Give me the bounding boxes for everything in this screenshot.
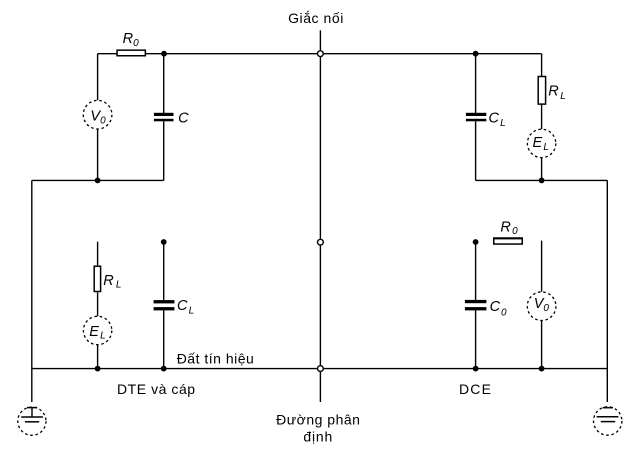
ground symbol left (protective earth in dashed circle) (18, 407, 46, 435)
node junction dot bottom V0 branch (539, 366, 545, 372)
wire demarcation vertical middle1 (319, 57, 321, 239)
resistor RL (bottom left, vertical) (94, 266, 100, 291)
wire EL branch lower (541, 158, 543, 181)
svg-text:Đường phân: Đường phân (276, 411, 360, 427)
source EL (bottom left, dashed circle) (83, 316, 111, 344)
resistor R0 (bottom right, floating) (494, 238, 523, 244)
source EL (top right, dashed circle) (527, 129, 555, 157)
wire V0 branch lower (bottom right) (541, 321, 543, 369)
wire C branch lower (163, 121, 165, 180)
wire RL to EL (541, 104, 543, 129)
wire V0 branch lower (97, 129, 99, 180)
node junction dot top-left C branch (161, 51, 167, 57)
capacitor C (top left plates) (154, 113, 174, 122)
capacitor C0 (bottom right plates) (465, 300, 487, 311)
wire demarcation vertical middle2 (319, 245, 321, 365)
wire demarcation vertical lower (319, 372, 321, 402)
wire left mid horizontal (32, 179, 164, 181)
node junction dot top-right CL branch (473, 51, 479, 57)
node terminal dot C0 branch (bottom right) (473, 239, 479, 245)
connector open circle middle (318, 239, 324, 245)
wire CL branch lower (bottom left) (163, 310, 165, 368)
wire V0 branch upper (97, 54, 99, 100)
node junction dot left mid (95, 178, 101, 184)
wire V0 branch upper (bottom right) (541, 241, 543, 292)
wire bottom horizontal left of circle (32, 368, 317, 370)
ground symbol right (protective earth in dashed circle) (594, 407, 622, 435)
source V0 (bottom right, dashed circle) (527, 292, 556, 321)
resistor R0 (top left) (117, 50, 145, 56)
node junction dot right mid (539, 178, 545, 184)
wire top horizontal from R0 to connector circle (146, 53, 317, 55)
wire C branch upper (163, 54, 165, 113)
resistor RL (top right, vertical) (538, 77, 545, 105)
svg-text:DCE: DCE (459, 381, 492, 397)
wire CL branch upper (top right) (475, 54, 477, 113)
capacitor CL (bottom left plates) (154, 300, 175, 310)
wire left vertical down to earth (31, 180, 33, 402)
wire demarcation vertical upper (319, 30, 321, 50)
svg-text:định: định (303, 428, 333, 444)
node junction dot bottom CL branch (161, 366, 167, 372)
wire top horizontal left segment (generator to R0) (98, 53, 117, 55)
wire RL to EL (bottom left) (97, 292, 99, 316)
wire CL branch upper (bottom left) (163, 242, 165, 300)
svg-text:Đất tín hiệu: Đất tín hiệu (177, 350, 255, 366)
node junction dot bottom RL branch (95, 366, 101, 372)
wire RL branch (bottom left) upper (97, 242, 99, 266)
source V0 (top left, dashed circle) (83, 100, 112, 129)
svg-text:C: C (178, 111, 189, 127)
wire C0 branch upper (475, 242, 477, 300)
node junction dot bottom C0 branch (473, 366, 479, 372)
wire C0 branch lower (475, 310, 477, 368)
connector open circle bottom (318, 366, 324, 372)
connector open circle top (318, 51, 324, 57)
wire bottom horizontal right of circle (324, 368, 608, 370)
wire CL branch lower (475, 121, 477, 180)
wire EL branch lower (bottom left) (97, 345, 99, 369)
wire top horizontal from connector circle to right corner (324, 53, 542, 55)
capacitor CL (top right plates) (466, 113, 486, 122)
wire right vertical down to earth (606, 180, 608, 402)
svg-text:DTE và cáp: DTE và cáp (117, 381, 196, 397)
wire RL branch top (top right) (541, 54, 543, 76)
wire right mid horizontal (476, 179, 608, 181)
svg-text:Giắc nối: Giắc nối (288, 10, 344, 26)
node terminal dot CL branch (bottom left) (161, 239, 167, 245)
